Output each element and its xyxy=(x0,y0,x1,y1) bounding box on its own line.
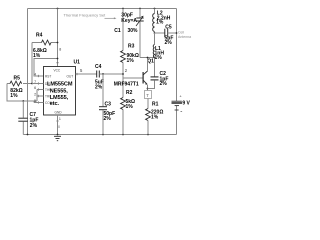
wire R5 left down and across xyxy=(7,84,37,102)
wire OUT to C4 xyxy=(76,73,97,75)
net 7 box xyxy=(145,91,152,99)
wire CON stub xyxy=(34,102,44,104)
inductor L1 xyxy=(153,33,164,61)
svg-text:GND: GND xyxy=(55,111,63,115)
wire top rail xyxy=(28,8,177,10)
svg-text:2: 2 xyxy=(125,68,128,73)
capacitor C2 xyxy=(148,58,169,89)
svg-text:NE555,: NE555, xyxy=(50,88,69,94)
svg-text:Thermal Frequency Set: Thermal Frequency Set xyxy=(64,13,107,18)
wire bottom rail xyxy=(23,134,176,136)
wire emitter down xyxy=(147,85,149,91)
wire DIS stub xyxy=(32,83,44,85)
inductor L2 xyxy=(153,9,171,34)
svg-text:Q1: Q1 xyxy=(147,59,154,65)
svg-text:LM555CM: LM555CM xyxy=(47,82,73,88)
wire C4 to base node xyxy=(99,73,123,75)
svg-text:0: 0 xyxy=(58,125,60,129)
svg-text:1%: 1% xyxy=(151,115,159,121)
svg-text:8: 8 xyxy=(59,48,61,52)
node rail junctions xyxy=(27,8,156,136)
variable capacitor C1 xyxy=(114,9,143,58)
node C7 top junction xyxy=(22,100,24,102)
svg-text:6: 6 xyxy=(34,86,36,90)
svg-text:C1: C1 xyxy=(114,28,121,34)
resistor R3 xyxy=(121,9,139,79)
svg-text:7: 7 xyxy=(146,93,149,98)
svg-text:2%: 2% xyxy=(165,40,173,46)
svg-text:4: 4 xyxy=(34,72,36,76)
pin end ticks xyxy=(38,63,58,121)
wire right battery/antenna vertical xyxy=(176,9,178,135)
svg-text:2%: 2% xyxy=(95,84,103,90)
ground xyxy=(54,136,61,140)
resistor R2 xyxy=(121,78,135,135)
svg-text:1: 1 xyxy=(59,117,61,121)
svg-text:2%: 2% xyxy=(30,123,38,129)
resistor R5 xyxy=(7,76,32,100)
node OUT/base junction xyxy=(122,73,124,75)
node L2/L1/C5 xyxy=(154,32,156,34)
node R4/VCC junction xyxy=(57,42,59,44)
svg-text:U1: U1 xyxy=(74,60,81,66)
svg-text:OUT: OUT xyxy=(67,75,74,79)
svg-text:9 V: 9 V xyxy=(182,100,190,106)
svg-text:Key=A: Key=A xyxy=(121,18,137,24)
svg-text:5: 5 xyxy=(80,68,83,73)
svg-text:etc.: etc. xyxy=(50,101,60,107)
annotation cell antenna xyxy=(178,31,191,40)
wire box to R1 xyxy=(147,99,149,109)
battery V1 9V xyxy=(172,94,191,112)
svg-text:1%: 1% xyxy=(10,93,18,99)
svg-text:1%: 1% xyxy=(126,104,134,110)
annotation thermal frequency set xyxy=(64,13,117,20)
resistor R4 xyxy=(32,33,58,60)
svg-text:R3: R3 xyxy=(128,44,135,50)
svg-text:VCC: VCC xyxy=(54,69,61,73)
wire CON down xyxy=(33,101,35,103)
svg-text:1%: 1% xyxy=(156,20,164,26)
IC U1 555 timer xyxy=(44,60,81,116)
node tank/L1/C2 xyxy=(154,57,156,59)
svg-text:C4: C4 xyxy=(95,64,102,70)
wire tank xyxy=(140,57,155,59)
wire R4 left down to DIS node xyxy=(31,43,33,84)
capacitor C4 xyxy=(95,64,104,90)
node C3 junction xyxy=(102,73,104,75)
capacitor C3 xyxy=(99,74,115,135)
svg-text:RST: RST xyxy=(45,75,51,79)
svg-text:MRF947T1: MRF947T1 xyxy=(114,81,139,87)
svg-text:2: 2 xyxy=(34,92,36,96)
svg-text:C5: C5 xyxy=(165,25,172,31)
svg-text:1%: 1% xyxy=(127,58,135,64)
svg-text:C3: C3 xyxy=(105,102,112,108)
svg-text:R1: R1 xyxy=(152,102,159,108)
resistor R1 xyxy=(146,102,164,135)
svg-text:R2: R2 xyxy=(126,90,133,96)
capacitor C7 xyxy=(18,101,38,135)
node DIS/R5/R4 junction xyxy=(31,83,33,85)
svg-text:2%: 2% xyxy=(104,116,112,122)
node C5/antenna wire xyxy=(176,32,178,34)
wire left rail xyxy=(27,9,29,135)
node C2/emitter xyxy=(147,88,149,90)
svg-text:30%: 30% xyxy=(128,28,139,34)
svg-text:+: + xyxy=(179,94,182,99)
svg-text:R5: R5 xyxy=(14,76,21,82)
wire base xyxy=(123,77,143,79)
node RST/VCC junction xyxy=(57,58,59,60)
wire TRI stub xyxy=(37,95,44,97)
wire THR stub xyxy=(37,89,44,91)
wire GND pin down xyxy=(57,115,59,135)
wire collector up xyxy=(147,58,149,72)
svg-text:2%: 2% xyxy=(160,81,168,87)
node GND rail junction xyxy=(57,134,59,136)
wire THR-TRI tie down xyxy=(36,90,38,102)
node collector/tank xyxy=(147,57,149,59)
wire VCC vertical xyxy=(57,9,59,67)
pin 3 number xyxy=(76,73,78,75)
svg-text:Cell: Cell xyxy=(178,31,184,35)
svg-text:R4: R4 xyxy=(36,33,43,39)
transistor Q1 xyxy=(114,59,154,88)
svg-text:1%: 1% xyxy=(155,55,163,61)
wire RST to VCC xyxy=(34,59,58,77)
svg-text:Antenna: Antenna xyxy=(178,35,191,39)
capacitor C5 xyxy=(155,25,177,47)
